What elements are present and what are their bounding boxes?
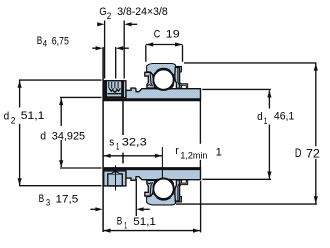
bearing half section (top): inner ring, outer ring, ball, seals [103,64,201,101]
svg-text:72: 72 [306,146,320,160]
screw thread box [105,81,123,97]
ball center line (s1) [161,147,163,179]
collar (top) with grub screw section [104,81,126,98]
B1 dimension [103,230,201,232]
svg-text:6,75: 6,75 [52,36,69,48]
svg-text:51,1: 51,1 [21,110,45,122]
raceway groove circle [153,69,174,90]
svg-text:3: 3 [46,198,50,208]
svg-text:2: 2 [107,11,112,21]
svg-text:32,3: 32,3 [122,137,147,149]
d1 extension lines [202,88,271,90]
svg-text:51,1: 51,1 [133,216,156,228]
inner ring right face line across bore (with text gap) [199,100,201,143]
svg-text:1: 1 [116,141,120,151]
screw centerline top (B4 right ext) [115,47,117,79]
svg-text:1: 1 [216,147,222,159]
screw dome [111,172,119,174]
raceway shoulder contacts [154,84,158,89]
right flinger [180,84,188,89]
G2 arrows [97,22,104,26]
svg-text:1: 1 [264,116,268,126]
D dimension line [315,63,317,203]
right seal [175,67,182,88]
s1 dimension [103,155,162,157]
bearing half section (bottom): mirrored [103,168,201,205]
svg-text:19: 19 [166,29,180,41]
collar left face + extension line [102,47,104,232]
eccentric recess edge line [122,99,124,137]
ball [154,70,174,90]
svg-text:1,2min: 1,2min [180,150,207,160]
G2 extension lines [104,21,106,79]
svg-text:34,925: 34,925 [52,130,85,142]
svg-text:3/8-24×3/8: 3/8-24×3/8 [117,6,168,18]
svg-text:B: B [39,193,45,205]
D extension lines [184,62,316,64]
collar (bottom) with screw elevation [104,166,126,191]
B3 dimension [95,207,102,211]
svg-text:s: s [109,137,114,149]
svg-text:C: C [154,29,161,41]
d dimension [60,98,62,126]
label background boxes [2,108,47,122]
left seal [145,72,155,88]
svg-text:4: 4 [43,39,48,49]
screw centerline bottom [115,166,117,191]
d1 dimension line [268,90,270,108]
B4 arrows [96,46,103,50]
d2 dimension [19,80,21,107]
bore line (thick) [103,98,201,100]
svg-text:46,1: 46,1 [274,111,294,123]
svg-text:17,5: 17,5 [56,193,79,205]
svg-text:1: 1 [124,220,127,230]
svg-text:G: G [99,6,106,18]
screw internals [108,82,110,88]
svg-text:d: d [40,130,46,142]
inner ring top-half band [104,88,201,101]
svg-text:2: 2 [11,116,16,126]
svg-text:B: B [117,216,123,228]
svg-text:B: B [37,35,43,47]
svg-text:r: r [175,145,179,157]
svg-text:d: d [257,111,263,123]
svg-text:D: D [295,146,302,160]
C dimension [145,45,147,62]
svg-text:d: d [4,110,10,122]
outer ring top-half [147,64,182,75]
